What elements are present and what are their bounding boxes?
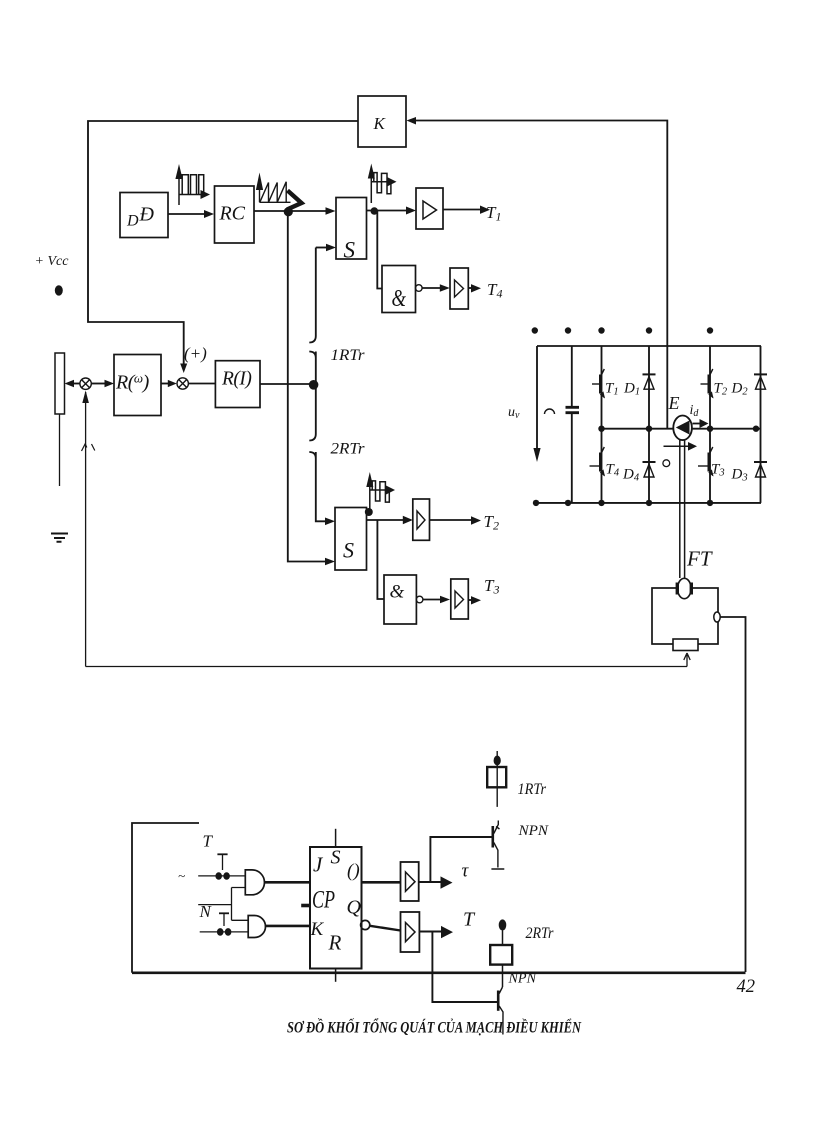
arrow right of E: [693, 419, 709, 428]
wire A1 out to J: [265, 881, 310, 884]
junction dot at S1 output: [371, 207, 379, 215]
push button T: [215, 854, 230, 880]
svg-text:NPN: NPN: [508, 971, 538, 987]
junction node dot: [284, 207, 293, 216]
svg-text:D3: D3: [731, 467, 748, 484]
wire vertical with relay contacts: [309, 248, 326, 522]
svg-text:T2: T2: [484, 512, 499, 533]
driver amp T2: [413, 499, 430, 540]
inductor arc: [545, 409, 555, 414]
svg-text:SƠ ĐỒ KHỐI TỔNG QUÁT CỦA MẠCH: SƠ ĐỒ KHỐI TỔNG QUÁT CỦA MẠCH ĐIỀU KHIỂN: [287, 1019, 582, 1037]
arrow into K: [407, 117, 417, 125]
svg-text:(): (): [347, 861, 360, 882]
svg-text:T4: T4: [606, 462, 620, 479]
svg-text:id: id: [690, 403, 700, 419]
svg-text:T3: T3: [484, 576, 499, 597]
wire to transistor Q1 base: [430, 837, 491, 882]
svg-text:+ Vcc: + Vcc: [35, 254, 70, 269]
svg-text:R: R: [328, 931, 342, 955]
wire AND2 to driver: [423, 599, 440, 601]
FF top pin: [335, 829, 337, 847]
bottom node dots: [533, 500, 713, 506]
CP input tick: [301, 904, 310, 908]
svg-text:E: E: [668, 393, 680, 413]
svg-text:D2: D2: [731, 381, 749, 398]
svg-text:T: T: [203, 832, 214, 851]
wire S1 out to driver: [367, 210, 408, 212]
waveform sawtooth: [256, 173, 291, 203]
wire node1 to R(w): [91, 383, 105, 385]
thyristor branch T2/T3 wire: [709, 346, 711, 503]
diode D3: [731, 462, 768, 484]
svg-text:~: ~: [178, 868, 185, 883]
svg-text:2RTr: 2RTr: [526, 925, 555, 942]
tacho potentiometer: [673, 639, 698, 651]
svg-text:&: &: [390, 582, 405, 603]
thyristor branch T1/T4 wire: [601, 346, 603, 503]
block S2 comparator: [335, 508, 367, 571]
gate AND &2: [384, 575, 423, 624]
wire S2 out to driver: [367, 519, 404, 521]
wire driver tau out: [419, 881, 441, 883]
wire A2 out to K: [265, 925, 310, 928]
junction dot at S2 corner: [365, 508, 373, 516]
driver amp T3: [451, 579, 469, 619]
push button N: [217, 913, 232, 935]
setpoint potentiometer: [55, 353, 65, 414]
block R(w) speed regulator: [114, 355, 161, 416]
SEC-BRIDGE: [508, 327, 767, 506]
wire driver T out: [419, 931, 441, 933]
middle node dots: [598, 426, 759, 432]
wire driver to T2: [430, 519, 472, 521]
relay coil 1RTr: [487, 751, 506, 807]
svg-text:K: K: [310, 919, 325, 940]
wire driver to T1: [443, 209, 481, 211]
svg-text:2RTr: 2RTr: [331, 441, 366, 458]
svg-text:NPN: NPN: [517, 823, 549, 839]
block K: [358, 96, 406, 147]
wire button N to AND: [200, 931, 249, 933]
ground symbol: [51, 534, 68, 542]
Uv input line with down arrow: [536, 346, 538, 450]
waveform PWM above S2 output: [366, 472, 395, 511]
driver amp T4: [450, 268, 468, 309]
diode D2: [731, 374, 768, 397]
transistor T4: [590, 447, 620, 479]
svg-text:D: D: [126, 213, 139, 230]
JK flip-flop box: [310, 847, 362, 969]
node dot under +Vcc: [55, 285, 63, 295]
SEC-BOTTOM: [132, 751, 755, 1037]
wire button T to AND: [198, 875, 245, 877]
small o marker: [663, 460, 670, 467]
wire N: [198, 904, 231, 906]
gate AND A2: [248, 916, 265, 938]
SEC-TACHO: [652, 440, 746, 972]
wire AND1 to driver: [422, 287, 440, 289]
transistor Q2: [498, 987, 503, 1035]
wire Qbar out: [370, 926, 401, 931]
transistor T3: [698, 447, 725, 479]
top supply rail: [537, 345, 761, 347]
svg-text:uv: uv: [508, 405, 520, 421]
big chevron on sawtooth wire: [287, 191, 302, 210]
wire node2 to R(I): [188, 383, 215, 385]
left frame wire: [132, 823, 199, 973]
wire R(w) to node 2: [161, 383, 169, 385]
wire S2 branch down to AND2: [377, 520, 384, 599]
svg-text:S: S: [343, 538, 354, 563]
svg-text:CP: CP: [312, 887, 335, 914]
tachogenerator body: [652, 588, 718, 644]
svg-text:Đ: Đ: [139, 204, 155, 226]
block R(I) current regulator: [215, 361, 260, 408]
svg-text:1RTr: 1RTr: [331, 347, 366, 364]
wiper arrow: [684, 653, 690, 667]
driver amp T: [401, 912, 420, 952]
svg-text:S: S: [331, 847, 341, 869]
svg-text:R(I): R(I): [221, 369, 251, 390]
output terminal circle: [714, 612, 720, 622]
bottom common rail: [132, 971, 746, 974]
gate AND &1: [382, 266, 422, 313]
Qbar bubble: [361, 920, 370, 929]
stray caret mark: [82, 444, 95, 451]
capacitor C: [566, 346, 580, 503]
svg-text:T3: T3: [711, 462, 725, 479]
top node dots: [532, 327, 714, 333]
svg-text:(+): (+): [184, 344, 207, 363]
svg-text:T1: T1: [486, 203, 501, 224]
cross connect wire: [232, 888, 249, 921]
driver amp T1: [416, 188, 443, 229]
diode D4: [622, 462, 656, 484]
svg-text:R(ω): R(ω): [115, 371, 150, 394]
svg-text:Q: Q: [347, 897, 362, 919]
diode branch D2/D3 wire: [760, 346, 762, 503]
transistor T2: [701, 369, 728, 399]
svg-text:S: S: [344, 238, 356, 263]
summing node 1: [80, 378, 91, 389]
wire K input from motor E node: [414, 121, 667, 429]
wire S1 branch down to AND1: [377, 211, 382, 289]
speed feedback wire bottom: [86, 666, 687, 668]
tacho output wire down to relay rail: [720, 617, 745, 972]
wire RC to S1: [254, 210, 326, 212]
block S1 comparator: [336, 198, 367, 263]
middle output rail: [602, 428, 761, 430]
svg-text:D4: D4: [622, 467, 640, 484]
svg-text:1RTr: 1RTr: [518, 781, 547, 798]
waveform PWM above S1 output: [368, 164, 397, 204]
svg-text:T: T: [463, 909, 476, 931]
motor E circle: [673, 416, 692, 441]
svg-text:τ: τ: [462, 861, 470, 882]
svg-text:FT: FT: [686, 547, 713, 571]
waveform pulses (oscillator output): [175, 164, 210, 205]
arrow into node 2: [180, 364, 187, 374]
wire Q out: [362, 881, 401, 884]
transistor T1: [592, 369, 619, 399]
wire R(I) out: [260, 383, 316, 385]
svg-text:RC: RC: [219, 203, 246, 225]
svg-text:42: 42: [737, 977, 756, 997]
wire D to RC: [168, 213, 205, 215]
brush marks: [677, 583, 691, 595]
transistor Q1: [491, 821, 504, 870]
svg-text:T2: T2: [714, 381, 728, 398]
wire driver to T3: [468, 599, 471, 601]
tacho rotor ellipse: [678, 578, 692, 598]
speed feedback wire up into node 1: [85, 392, 87, 667]
driver amp tau: [401, 862, 419, 901]
relay coil 2RTr: [490, 919, 512, 987]
bottom supply rail: [535, 502, 761, 504]
svg-text:T4: T4: [487, 280, 502, 301]
wire into S1 lower input: [316, 247, 326, 249]
svg-text:T1: T1: [605, 381, 619, 398]
svg-text:K: K: [373, 114, 387, 133]
wire to transistor Q2 base: [432, 932, 497, 1003]
motor shaft double line: [680, 440, 685, 578]
wire pot to ground: [59, 415, 61, 487]
FF bottom pin: [335, 969, 337, 982]
junction dot R(I) output: [309, 380, 319, 390]
arrow node1 to pot: [72, 383, 80, 385]
arrow Ud below E: [664, 442, 698, 451]
gate AND A1: [245, 870, 264, 895]
block D-D oscillator: [120, 193, 168, 238]
wire K feedback left (K to summing node 2): [88, 121, 358, 364]
SEC-TOP: [35, 96, 688, 667]
wire driver to T4: [468, 287, 471, 289]
diode D1: [623, 374, 656, 397]
svg-text:D1: D1: [623, 381, 640, 398]
block RC sawtooth generator: [215, 186, 255, 243]
diode branch D1/D4 wire: [648, 346, 650, 503]
summing node 2: [177, 378, 188, 389]
svg-text:J: J: [313, 853, 324, 877]
wire sawtooth node down to S2 lower input: [288, 212, 326, 562]
svg-text:&: &: [392, 286, 407, 312]
